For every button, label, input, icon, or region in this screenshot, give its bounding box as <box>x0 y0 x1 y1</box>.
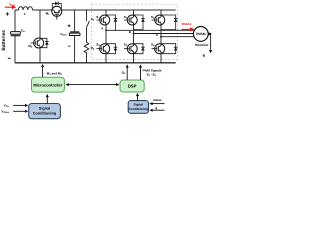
battery branch wire <box>14 10 16 63</box>
S6 diode <box>174 47 178 50</box>
SC-right to DSP arrow <box>137 96 139 101</box>
svg-text:PMSM: PMSM <box>196 32 206 36</box>
svg-text:M1 and M2: M1 and M2 <box>47 72 63 77</box>
inverter leg 3 lower wires <box>160 37 162 63</box>
svg-text:Cb: Cb <box>21 28 25 33</box>
svg-text:S1 - S6: S1 - S6 <box>147 73 157 78</box>
inductor L <box>15 7 33 10</box>
S2 diode loop <box>106 44 116 54</box>
inverter leg 1 collector wire <box>105 10 107 30</box>
IGBT S5 <box>152 15 165 25</box>
svg-text:Batteries: Batteries <box>1 30 7 51</box>
svg-text:ibat: ibat <box>9 1 14 7</box>
inverter leg 1 lower wires <box>105 30 107 63</box>
dashed inverter box <box>92 4 178 59</box>
S4 diode <box>141 47 145 50</box>
S3 diode <box>141 19 145 22</box>
battery minus label <box>8 57 11 59</box>
transistor M2 <box>31 38 44 48</box>
svg-text:Signal: Signal <box>39 106 50 110</box>
switch Sb blade <box>87 21 90 28</box>
transistor M1 <box>52 6 62 19</box>
svg-text:DSP: DSP <box>128 84 137 89</box>
VCbus input arrow <box>13 110 25 112</box>
M2 diode <box>45 42 49 45</box>
M2 freewheel diode loop <box>40 38 47 47</box>
svg-text:Conditioning: Conditioning <box>128 107 148 111</box>
DSP box <box>120 80 144 92</box>
VCb input arrow <box>13 104 25 106</box>
svg-text:Sb: Sb <box>91 17 95 22</box>
junction dot A <box>105 29 107 31</box>
node X branch to M2 <box>39 10 41 38</box>
phase line B <box>134 33 194 35</box>
Imeas input arrow <box>152 103 165 105</box>
phase line A <box>106 29 194 31</box>
svg-text:Microcontroller: Microcontroller <box>33 82 63 87</box>
theta output line <box>210 35 212 50</box>
top DC rail <box>33 9 176 11</box>
phase line C <box>161 36 194 38</box>
junction dot B <box>133 33 135 35</box>
Microcontroller box <box>32 77 65 92</box>
capacitor Cbus <box>70 31 79 33</box>
M1 diode <box>55 2 58 6</box>
IGBT S1 <box>97 15 110 25</box>
svg-text:θ: θ <box>203 53 205 58</box>
resistor Rb <box>84 42 89 62</box>
svg-text:Imeas: Imeas <box>182 22 192 26</box>
svg-text:S2: S2 <box>96 42 100 47</box>
IGBT S3 <box>124 15 137 25</box>
svg-text:M1: M1 <box>46 11 51 16</box>
inverter leg 2 collector wire <box>133 10 135 34</box>
S6 diode loop <box>161 44 176 54</box>
microcontroller-DSP link arrow <box>68 84 117 86</box>
ibat red arrow <box>5 6 13 8</box>
bottom DC rail <box>15 62 176 64</box>
junction dot C <box>160 36 162 38</box>
svg-text:Imeas: Imeas <box>153 98 162 102</box>
svg-text:θ: θ <box>155 106 157 110</box>
svg-text:Conditioning: Conditioning <box>33 111 57 115</box>
motor shaft <box>208 33 211 36</box>
Cbus minus <box>68 45 71 47</box>
bus capacitor branch <box>74 10 76 63</box>
DSP Sb arrow <box>126 67 128 80</box>
svg-text:Resolver: Resolver <box>195 43 209 47</box>
svg-text:Rb: Rb <box>91 46 95 51</box>
M2 emitter wire <box>39 48 41 63</box>
signal conditioning box right <box>128 101 148 114</box>
capacitor Cb <box>11 32 21 35</box>
S1 diode loop <box>106 15 116 30</box>
IGBT S4 <box>124 44 137 54</box>
S4 diode loop <box>134 44 144 54</box>
svg-text:Cbus: Cbus <box>60 32 67 37</box>
Imeas red arrow <box>182 28 191 30</box>
svg-text:M2: M2 <box>28 44 33 49</box>
svg-text:L: L <box>24 12 26 16</box>
IGBT S6 <box>152 44 165 54</box>
inverter leg 3 collector wire <box>160 10 162 37</box>
S5 diode loop <box>161 15 176 30</box>
battery plus label <box>6 12 9 15</box>
Cbus plus <box>68 24 71 27</box>
svg-text:VCb: VCb <box>4 104 10 109</box>
svg-text:S6: S6 <box>151 42 155 47</box>
svg-text:VCbus: VCbus <box>1 110 10 115</box>
IGBT S2 <box>97 44 110 54</box>
svg-text:A: A <box>101 27 104 31</box>
S1 diode <box>114 19 118 22</box>
DSP PWM arrow <box>140 67 142 80</box>
M1 freewheel diode loop <box>52 3 61 10</box>
S5 diode <box>174 19 178 22</box>
motor PMSM <box>193 27 208 42</box>
theta input arrow <box>152 109 165 111</box>
signal conditioning box left <box>29 104 61 119</box>
S2 diode <box>114 47 118 50</box>
svg-text:Sb: Sb <box>122 71 126 76</box>
SC-left to microcontroller arrow <box>46 97 48 104</box>
svg-text:S4: S4 <box>124 42 128 47</box>
microcontroller gate-drive arrow <box>42 67 44 78</box>
inverter leg 2 lower wires <box>133 34 135 63</box>
S3 diode loop <box>134 15 144 30</box>
brake chopper branch wire <box>86 10 88 42</box>
